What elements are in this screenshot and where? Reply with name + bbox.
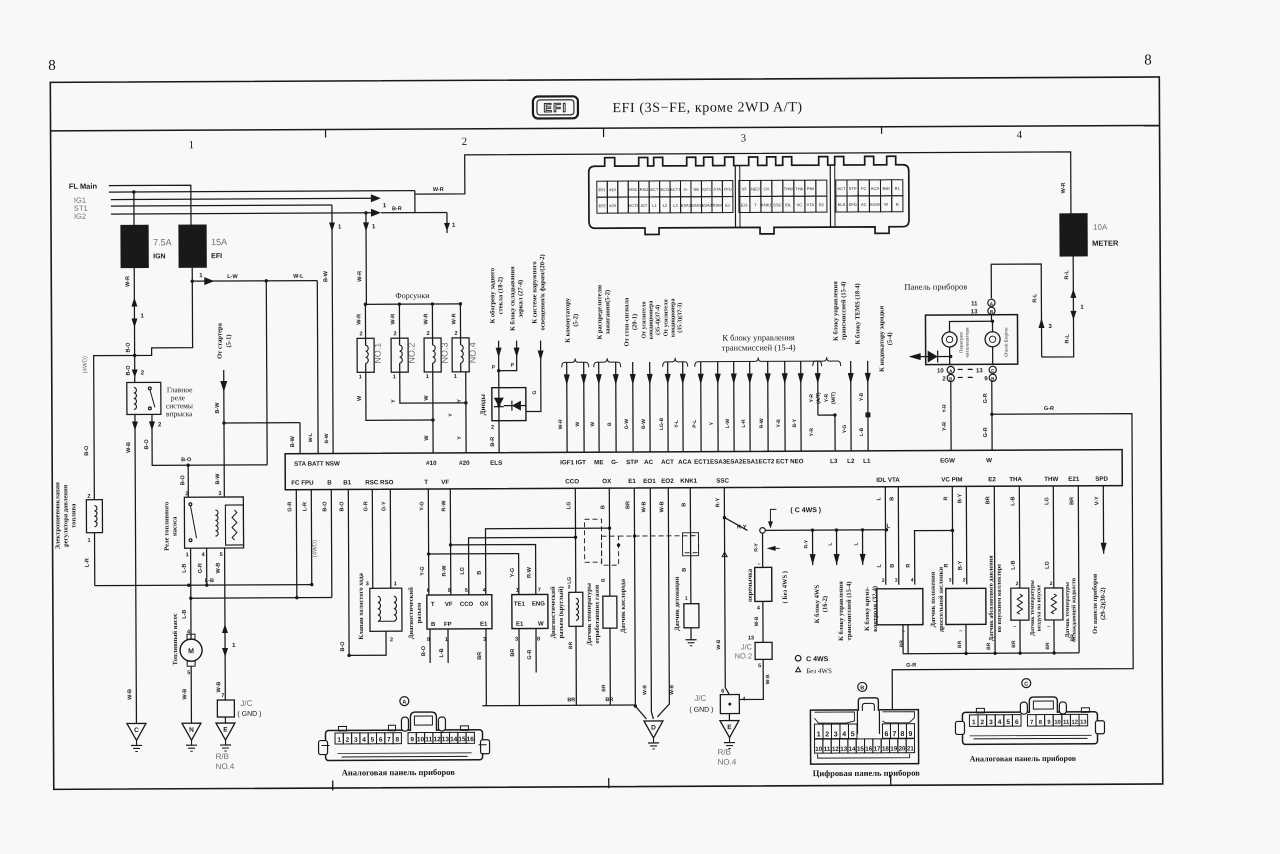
- svg-text:E02: E02: [599, 203, 607, 208]
- svg-text:B-W: B-W: [641, 419, 647, 429]
- svg-text:8: 8: [537, 636, 540, 642]
- svg-text:W: W: [424, 435, 430, 441]
- svg-text:Диагностический: Диагностический: [550, 586, 557, 638]
- svg-text:14: 14: [849, 746, 856, 753]
- svg-text:W-B: W-B: [641, 501, 647, 512]
- svg-text:FC FPU: FC FPU: [291, 480, 314, 487]
- svg-text:8: 8: [901, 731, 905, 738]
- ground E left: [216, 717, 235, 751]
- svg-text:13: 13: [840, 746, 847, 753]
- svg-text:G: G: [532, 390, 538, 394]
- svg-text:R/B: R/B: [718, 748, 731, 757]
- svg-text:(16-2): (16-2): [822, 596, 829, 612]
- svg-text:Панель приборов: Панель приборов: [904, 281, 967, 291]
- svg-text:R-Y: R-Y: [754, 542, 760, 551]
- svg-text:1: 1: [426, 374, 429, 380]
- svg-text:6: 6: [721, 689, 724, 695]
- svg-text:STA: STA: [713, 187, 721, 192]
- svg-text:B-O: B-O: [421, 645, 427, 656]
- node IG1 label: [74, 196, 86, 205]
- instrument panel pins bottom: [937, 366, 996, 382]
- svg-text:Y: Y: [457, 399, 463, 403]
- relay: main injection system relay: [127, 382, 161, 414]
- svg-text:BR: BR: [1011, 640, 1017, 648]
- oxygen sensor: [601, 596, 618, 705]
- svg-text:THW: THW: [1044, 476, 1058, 483]
- svg-text:Y-R: Y-R: [809, 428, 815, 437]
- svg-text:К коммутатору: К коммутатору: [564, 297, 571, 343]
- svg-text:Диоды: Диоды: [479, 394, 487, 416]
- svg-text:11: 11: [971, 301, 978, 307]
- svg-text:BR: BR: [985, 496, 991, 504]
- outer border frame: [50, 77, 1162, 789]
- svg-text:B-W: B-W: [290, 435, 296, 447]
- brace to transmission control big: [695, 332, 822, 367]
- svg-text:топлива: топлива: [70, 503, 77, 528]
- svg-text:11: 11: [824, 746, 831, 753]
- svg-text:2: 2: [394, 331, 397, 337]
- svg-text:1: 1: [393, 374, 396, 380]
- coolant temperature sensor: [1045, 588, 1063, 653]
- svg-text:впрыска: впрыска: [166, 409, 193, 418]
- svg-text:Аналоговая панель приборов: Аналоговая панель приборов: [342, 767, 456, 778]
- svg-text:12: 12: [1072, 720, 1078, 726]
- svg-text:W-R: W-R: [558, 419, 564, 429]
- svg-text:разъем (круглый): разъем (круглый): [558, 586, 565, 638]
- svg-text:OX: OX: [602, 478, 612, 485]
- svg-text:2: 2: [825, 731, 829, 738]
- svg-text:8: 8: [395, 736, 399, 743]
- svg-text:11: 11: [425, 736, 432, 743]
- svg-text:ELS: ELS: [490, 460, 502, 467]
- svg-text:6: 6: [427, 588, 430, 594]
- svg-text:W-B: W-B: [216, 682, 222, 693]
- wire B from OX: [476, 488, 611, 597]
- svg-text:(5-2): (5-2): [572, 314, 579, 327]
- svg-text:KNK1: KNK1: [761, 202, 772, 207]
- wire R-L up to panel: [991, 264, 1052, 357]
- svg-text:W-R: W-R: [433, 187, 444, 193]
- svg-text:зеркал (27-4): зеркал (27-4): [517, 280, 524, 318]
- svg-text:B-O: B-O: [181, 457, 192, 463]
- svg-text:FL Main: FL Main: [69, 182, 98, 191]
- svg-text:EO1: EO1: [643, 478, 656, 485]
- svg-text:IDL VTA: IDL VTA: [876, 477, 900, 484]
- svg-text:B: B: [327, 480, 332, 487]
- svg-text:B: B: [607, 422, 613, 426]
- svg-text:P-L: P-L: [692, 420, 698, 428]
- svg-text:9: 9: [909, 731, 913, 738]
- brace to commutator: [561, 297, 588, 367]
- svg-text:W: W: [590, 422, 596, 427]
- svg-text:охлаждающей жидкости: охлаждающей жидкости: [1070, 577, 1077, 642]
- svg-text:10: 10: [1054, 720, 1060, 726]
- svg-text:E1: E1: [628, 478, 636, 485]
- ECU connector pin grid group 1: [597, 181, 733, 214]
- arrow to transmission control: [827, 528, 853, 641]
- svg-text:B-R: B-R: [392, 206, 402, 212]
- svg-text:(M/T): (M/T): [831, 392, 837, 404]
- wire to J/C NO.2: [748, 601, 763, 642]
- wire Y-R to EGW: [942, 381, 951, 450]
- label C 4WS: [768, 507, 821, 528]
- wire LG from CCO: [459, 488, 577, 595]
- label to charge indicator: [878, 305, 893, 371]
- shield dashed oxygen: [584, 519, 698, 566]
- svg-text:W-L: W-L: [293, 274, 304, 280]
- svg-text:(5-4): (5-4): [887, 332, 894, 345]
- wire from starter to STA: [215, 370, 228, 423]
- label R/B NO.4 right: [718, 748, 737, 767]
- svg-text:R-L: R-L: [1064, 270, 1070, 280]
- svg-text:W-R: W-R: [390, 314, 396, 325]
- injector return wires: [357, 372, 468, 454]
- svg-text:3: 3: [515, 637, 518, 643]
- svg-text:перемычка: перемычка: [747, 568, 754, 602]
- svg-text:N: N: [189, 727, 194, 734]
- svg-text:L-W: L-W: [227, 274, 238, 280]
- node ST1 label: [74, 204, 88, 213]
- svg-text:B: B: [889, 497, 895, 501]
- svg-text:ACA: ACA: [871, 186, 880, 191]
- svg-text:BR: BR: [477, 652, 483, 660]
- svg-text:3: 3: [354, 737, 358, 744]
- section number 2: [462, 136, 468, 148]
- svg-text:К блоку круиз-: К блоку круиз-: [864, 587, 871, 631]
- BR ground bus: [482, 697, 646, 720]
- svg-text:B: B: [896, 202, 899, 207]
- wire G-R loop around sensors: [891, 406, 1133, 710]
- svg-text:NE: NE: [693, 187, 699, 192]
- wire B-W long drop: [323, 205, 343, 454]
- svg-text:К обогреву заднего: К обогреву заднего: [489, 268, 496, 323]
- svg-text:TE1: TE1: [514, 602, 526, 608]
- svg-text:G-W: G-W: [624, 419, 630, 430]
- section number 4: [1017, 129, 1023, 141]
- svg-text:ESA3: ESA3: [702, 203, 713, 208]
- wire B-R to ELS pin: [490, 421, 499, 453]
- svg-text:2: 2: [87, 494, 90, 500]
- svg-text:R/B: R/B: [216, 752, 229, 761]
- wire B-O relay out: [144, 414, 267, 498]
- wire ELS feeds with arrows: [492, 341, 520, 388]
- svg-text:Цифровая панель приборов: Цифровая панель приборов: [813, 768, 921, 779]
- jumper wire R-Y: [754, 533, 763, 567]
- wire R-W from VF: [441, 489, 452, 595]
- svg-text:LG: LG: [567, 577, 573, 584]
- svg-text:G-Y: G-Y: [381, 501, 387, 511]
- svg-text:T: T: [424, 479, 428, 486]
- wire W-R to top rail: [415, 152, 1071, 217]
- svg-text:R: R: [906, 564, 912, 568]
- label diagnostic connector: [408, 587, 423, 639]
- svg-text:L: L: [854, 542, 860, 545]
- svg-text:–: –: [758, 561, 761, 567]
- idle valve ground wires: [347, 631, 393, 657]
- wire L from IDL: [876, 487, 890, 585]
- svg-text:17: 17: [874, 746, 881, 753]
- svg-text:W-B: W-B: [765, 674, 771, 684]
- BR sensor ground bus: [903, 624, 1079, 656]
- svg-text:трансмиссией (15-4): трансмиссией (15-4): [722, 342, 796, 352]
- svg-text:EGW: EGW: [870, 202, 880, 207]
- brace to ignition distributor: [593, 285, 620, 367]
- svg-text:AC: AC: [644, 459, 654, 466]
- svg-text:W-R: W-R: [1061, 182, 1067, 193]
- svg-text:Датчик температуры: Датчик температуры: [1065, 582, 1071, 638]
- label Bez 4WS pointer: [767, 546, 789, 604]
- diode box: [492, 388, 526, 421]
- label MAP sensor: [988, 555, 1003, 641]
- svg-text:7: 7: [221, 693, 224, 699]
- svg-text:14: 14: [450, 736, 458, 743]
- wire G-R from FC: [287, 490, 297, 598]
- svg-text:Y-B: Y-B: [859, 392, 865, 401]
- diagnostic connector round box: [512, 594, 548, 642]
- svg-text:Y: Y: [457, 436, 463, 440]
- svg-text:катализатора: катализатора: [965, 327, 970, 357]
- svg-text:2: 2: [491, 425, 494, 431]
- svg-text:Без 4WS: Без 4WS: [806, 667, 832, 675]
- svg-text:NO.2: NO.2: [407, 343, 417, 364]
- svg-text:NO.3: NO.3: [440, 342, 450, 363]
- svg-text:13: 13: [748, 635, 754, 641]
- svg-text:NO.4: NO.4: [468, 342, 478, 363]
- svg-text:NEO: NEO: [751, 186, 760, 191]
- TPS ground: [899, 625, 908, 654]
- svg-text:CCO: CCO: [565, 478, 579, 485]
- wire B-O from B1: [339, 489, 349, 655]
- injector NO.3: [423, 304, 449, 380]
- svg-text:B-R: B-R: [490, 437, 496, 447]
- svg-text:кондиционера: кондиционера: [648, 301, 654, 340]
- wire L3 with jog: [809, 361, 837, 451]
- svg-text:SSC: SSC: [773, 202, 781, 207]
- svg-text:1: 1: [186, 552, 189, 558]
- svg-text:R-Y: R-Y: [804, 539, 810, 548]
- svg-text:FP: FP: [444, 622, 452, 628]
- svg-text:E01: E01: [598, 187, 606, 192]
- svg-text:E: E: [727, 724, 732, 731]
- svg-text:2: 2: [568, 584, 571, 590]
- svg-text:RSC: RSC: [629, 187, 638, 192]
- svg-text:Датчик детонации: Датчик детонации: [674, 576, 681, 631]
- ground E right: [720, 714, 739, 749]
- wire IG1: [111, 194, 381, 203]
- svg-text:SPD: SPD: [849, 202, 857, 207]
- svg-text:2: 2: [963, 577, 966, 583]
- wire L-B relay to bus: [182, 548, 191, 598]
- svg-text:ME: ME: [594, 459, 603, 466]
- svg-text:CCO: CCO: [460, 602, 474, 608]
- wire BR from E2: [985, 486, 995, 653]
- svg-text:5: 5: [371, 737, 375, 744]
- svg-text:От стартера: От стартера: [216, 322, 223, 359]
- svg-text:E1: E1: [725, 203, 731, 208]
- connector C analog instrument panel: [955, 697, 1104, 745]
- instrument panel box: [925, 315, 1017, 365]
- svg-text:3: 3: [895, 578, 898, 584]
- legend 4WS options: [795, 655, 832, 675]
- svg-text:L-B: L-B: [859, 427, 865, 436]
- svg-text:Датчик абсолютного давления: Датчик абсолютного давления: [988, 555, 995, 641]
- svg-text:10: 10: [417, 736, 425, 743]
- svg-text:10: 10: [937, 369, 944, 375]
- svg-text:B-O: B-O: [339, 501, 345, 512]
- svg-text:L-W: L-W: [725, 419, 731, 429]
- svg-text:Y: Y: [391, 399, 397, 403]
- label digital panel B: [813, 768, 921, 779]
- diagnostic connector tails: [421, 629, 486, 706]
- svg-text:3: 3: [989, 719, 993, 726]
- label instrument panel: [904, 281, 967, 291]
- knock sensor: [684, 596, 699, 646]
- svg-text:12: 12: [832, 746, 839, 753]
- svg-text:STP: STP: [626, 459, 638, 466]
- svg-text:( GND ): ( GND ): [237, 711, 261, 718]
- svg-text:E2: E2: [988, 476, 996, 483]
- svg-text:1: 1: [189, 139, 195, 151]
- fuel pressure regulator solenoid: [86, 494, 102, 544]
- svg-text:B-W: B-W: [215, 473, 221, 485]
- svg-text:2: 2: [390, 637, 393, 643]
- svg-text:ECO: ECO: [660, 187, 669, 192]
- svg-text:C: C: [134, 727, 139, 734]
- svg-text:К блоку TEMS (18-4): К блоку TEMS (18-4): [854, 283, 861, 344]
- svg-text:Электропневмоклапан: Электропневмоклапан: [54, 482, 61, 550]
- wire ST1: [111, 205, 332, 206]
- svg-text:9: 9: [410, 736, 414, 743]
- svg-text:G-R: G-R: [1044, 406, 1054, 412]
- svg-text:R-L: R-L: [1065, 334, 1071, 344]
- svg-text:зажигания(5-2): зажигания(5-2): [604, 290, 611, 335]
- bottom border ticks: [333, 775, 891, 791]
- svg-text:VC: VC: [797, 202, 803, 207]
- label idle speed valve: [358, 572, 365, 639]
- section number 3: [741, 132, 747, 144]
- label R/B NO.4 left: [216, 752, 235, 771]
- intake air temperature sensor: [1011, 588, 1029, 653]
- label knock sensor: [674, 576, 681, 631]
- svg-text:L: L: [886, 524, 890, 530]
- idle speed control valve: [370, 588, 402, 631]
- svg-text:Перегрев: Перегрев: [959, 332, 964, 353]
- wire KNK1 shielded: [681, 488, 699, 604]
- wires to round diag connector: [429, 544, 541, 595]
- svg-text:20: 20: [899, 746, 906, 753]
- svg-text:NO.4: NO.4: [216, 762, 235, 771]
- svg-text:R-W: R-W: [527, 566, 533, 578]
- svg-text:E21: E21: [741, 202, 749, 207]
- junction J/C GND right: [689, 688, 746, 713]
- svg-text:W-B: W-B: [216, 563, 222, 574]
- svg-text:Y-L: Y-L: [674, 420, 680, 428]
- svg-text:R-L: R-L: [1032, 293, 1038, 303]
- svg-text:1: 1: [454, 374, 457, 380]
- wire J/C NO.2 to GND pin4: [739, 659, 771, 699]
- label main relay: [166, 385, 193, 418]
- diode to charge indicator: [909, 350, 953, 362]
- ground C: [127, 723, 146, 751]
- section number 1: [189, 139, 195, 151]
- MAP ground: [957, 624, 966, 653]
- svg-text:ACA: ACA: [678, 459, 692, 466]
- svg-text:ECT2: ECT2: [628, 203, 639, 208]
- svg-text:6: 6: [885, 731, 889, 738]
- svg-text:G-R: G-R: [198, 563, 204, 573]
- svg-text:7: 7: [387, 737, 391, 744]
- svg-text:Клапан холостого хода: Клапан холостого хода: [358, 572, 365, 639]
- svg-text:К системе наружного: К системе наружного: [531, 261, 538, 323]
- wire bus to STA BATT NSW: [222, 421, 300, 454]
- svg-text:12: 12: [433, 736, 441, 743]
- wire to headlights G: [526, 340, 544, 411]
- svg-text:7: 7: [1030, 720, 1033, 726]
- wire B-O from B: [312, 490, 332, 598]
- svg-text:BR: BR: [567, 697, 575, 703]
- svg-text:IDL: IDL: [785, 202, 792, 207]
- svg-text:#20: #20: [459, 460, 470, 467]
- svg-text:Y-G: Y-G: [419, 501, 425, 511]
- svg-text:W-R: W-R: [125, 276, 131, 287]
- wire BR from E1: [625, 488, 637, 708]
- injector NO.4: [451, 304, 477, 380]
- svg-text:5: 5: [758, 663, 761, 669]
- svg-text:Y-R: Y-R: [809, 394, 815, 403]
- svg-text:G-: G-: [611, 459, 618, 466]
- svg-text:4: 4: [998, 719, 1002, 726]
- svg-text:RSC RSO: RSC RSO: [365, 479, 393, 486]
- label analog panel A: [342, 767, 456, 778]
- arrow to cruise control: [853, 528, 879, 632]
- svg-text:(A/T): (A/T): [816, 392, 822, 404]
- wire W-R below IGN fuse: [125, 267, 145, 382]
- svg-text:B: B: [682, 568, 688, 572]
- svg-text:К индикатору зарядки: К индикатору зарядки: [878, 305, 885, 371]
- svg-text:THA: THA: [1009, 476, 1022, 483]
- wire branch 4WD B-O: [83, 355, 136, 499]
- title separator line: [51, 125, 1160, 130]
- svg-text:T: T: [431, 602, 435, 608]
- wire L-B from THA: [1010, 486, 1019, 588]
- wire Bez4WS branch: [715, 518, 729, 695]
- svg-text:W-R: W-R: [356, 314, 362, 325]
- option node circle C4WS: [760, 527, 889, 533]
- svg-text:во впускном коллекторе: во впускном коллекторе: [996, 564, 1003, 633]
- svg-text:8: 8: [1144, 52, 1152, 68]
- round diag tails: [510, 629, 536, 706]
- svg-text:15: 15: [857, 746, 864, 753]
- svg-text:#10: #10: [426, 460, 437, 467]
- svg-text:ECT: ECT: [650, 187, 659, 192]
- svg-text:2: 2: [882, 578, 885, 584]
- wire L-R from FPU: [302, 490, 311, 585]
- svg-text:W-R: W-R: [357, 271, 363, 282]
- wire R-L from meter fuse: [1041, 256, 1084, 357]
- wire L2: [842, 361, 854, 451]
- svg-text:BR: BR: [1069, 497, 1075, 505]
- svg-text:Y-B: Y-B: [776, 419, 782, 428]
- lamp check engine: [949, 314, 1008, 364]
- label to exterior lighting: [531, 254, 546, 330]
- svg-text:B1: B1: [895, 186, 901, 191]
- wire W-B relay to ground C: [126, 414, 140, 723]
- svg-text:отработавших газов: отработавших газов: [594, 584, 601, 644]
- label exhaust temperature sensor: [586, 583, 601, 645]
- wire RSC: [363, 489, 372, 588]
- svg-text:К блоку управления: К блоку управления: [838, 581, 845, 641]
- svg-text:6: 6: [379, 737, 383, 744]
